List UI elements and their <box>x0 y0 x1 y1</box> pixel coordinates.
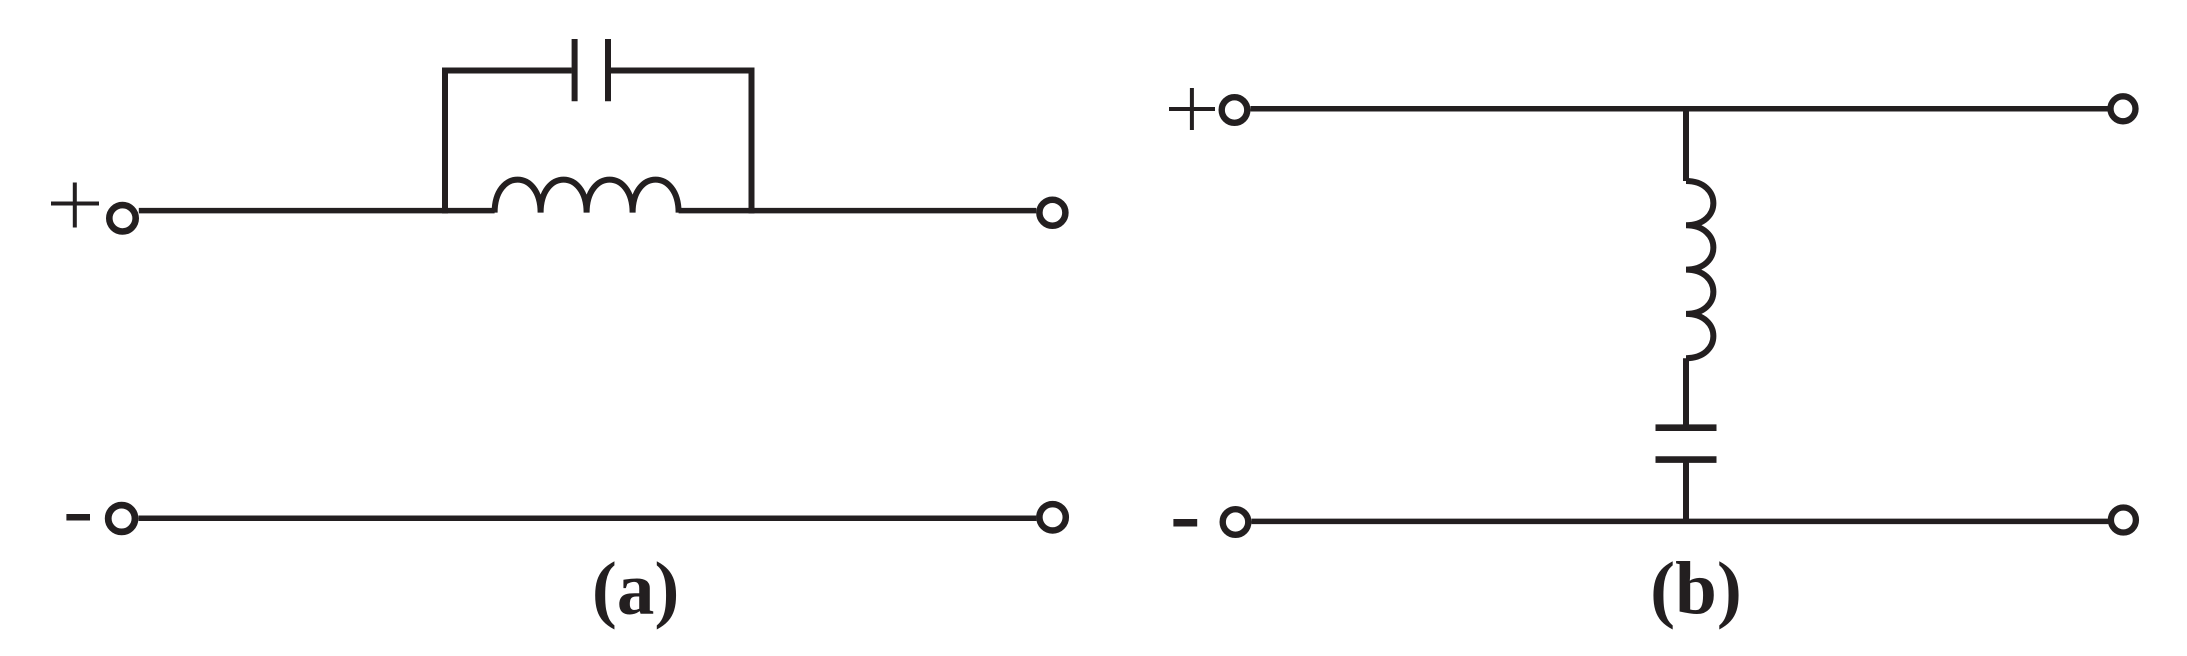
wire (a) top, right segment <box>679 208 1037 214</box>
wire (b) shunt branch lower <box>1683 460 1689 522</box>
wire (b) shunt branch upper <box>1683 109 1689 181</box>
capacitor C (a) left plate <box>572 39 578 101</box>
capacitor C (a) right plate <box>605 39 611 101</box>
terminal polarity plus sign (b) <box>1169 88 1215 130</box>
terminal circle (a) bottom-left <box>108 505 135 532</box>
wire (b) top <box>1251 106 2109 112</box>
terminal polarity minus sign (b) <box>1173 519 1197 527</box>
inductor L (b) <box>1686 181 1713 358</box>
terminal circle (b) top-left <box>1222 97 1248 123</box>
capacitor C (b) top plate <box>1656 424 1717 431</box>
wire (b) shunt branch middle <box>1683 358 1689 428</box>
terminal circle (b) top-right <box>2111 96 2136 121</box>
wire (a) top, left segment <box>139 208 495 214</box>
svg-text:(a): (a) <box>592 548 679 631</box>
terminal circle (b) bottom-right <box>2111 508 2136 533</box>
svg-text:(b): (b) <box>1650 548 1742 631</box>
wire (b) bottom <box>1252 519 2109 525</box>
capacitor C (b) bottom plate <box>1656 456 1717 463</box>
terminal polarity minus sign (a) <box>66 514 90 521</box>
terminal circle (a) top-left <box>109 205 135 231</box>
wire (a) parallel-branch right riser <box>611 71 752 214</box>
wire (a) parallel-branch left riser <box>445 71 572 214</box>
wire (a) bottom <box>139 516 1037 522</box>
terminal circle (b) bottom-left <box>1223 509 1249 535</box>
inductor L (a) <box>495 180 679 213</box>
terminal circle (a) bottom-right <box>1039 504 1065 530</box>
terminal polarity plus sign (a) <box>51 183 99 228</box>
terminal circle (a) top-right <box>1039 200 1065 226</box>
